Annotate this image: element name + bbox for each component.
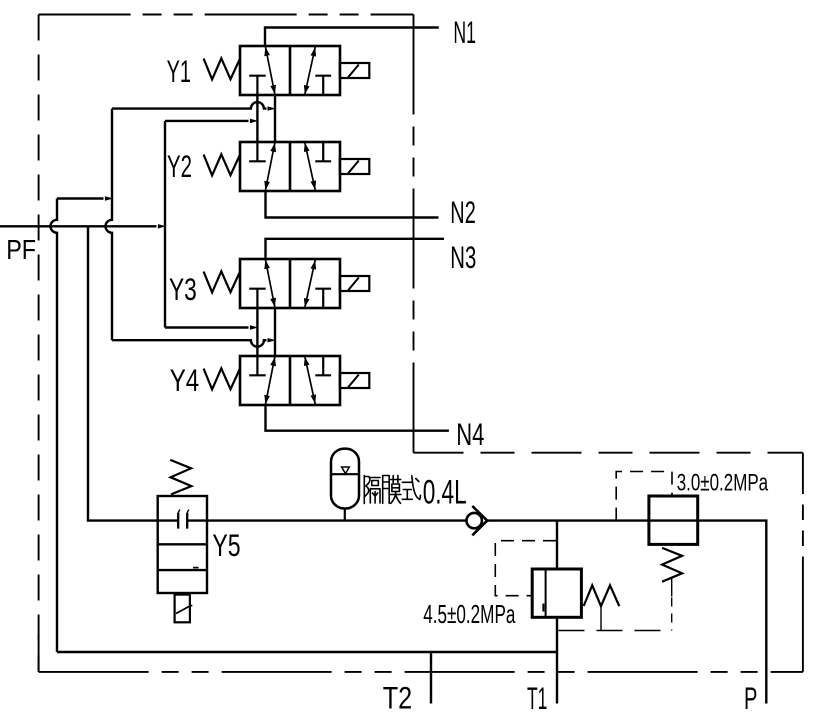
enclosure dashed border right upper edge [413,15,415,453]
svg-text:P: P [744,680,757,716]
wire stub to manifold [57,197,104,199]
svg-text:N4: N4 [456,416,484,452]
wire Y1-Y2 blocked ports [256,95,258,142]
svg-text:N1: N1 [453,14,476,50]
svg-text:3.0±0.2MPa: 3.0±0.2MPa [677,470,769,497]
valve Y2 body (mirrored) [240,142,340,191]
solenoid of Y4 [340,373,370,388]
spring of Y1 [204,58,240,79]
wire A with crossover hop to Y1/Y2 flow port [112,102,267,108]
wire vertical PF feed line [164,121,166,328]
wire B to Y1/Y2 blocked port line [165,120,249,122]
spring of Y2 [204,154,240,175]
label accumulator chinese text 膜 [383,476,401,504]
enclosure dashed border right lower edge [802,453,804,672]
accumulator [331,449,359,521]
valve Y1 body [240,46,340,95]
spring of Y3 [204,271,240,292]
wire Y3-Y4 blocked ports [256,308,258,356]
wire Y5 supply from PF [88,226,158,520]
svg-text:N2: N2 [450,194,476,230]
wire A2 with crossover hop to Y3/Y4 flow port [112,340,267,347]
svg-text:Y3: Y3 [169,271,197,307]
svg-text:Y4: Y4 [170,362,200,398]
solenoid of Y3 [340,276,370,291]
wire tank rail [57,651,557,653]
svg-text:N3: N3 [450,239,476,275]
wire main pressure line [207,521,766,704]
wire Y3-Y4 flow ports [274,308,276,356]
label accumulator chinese text 式 [402,476,420,500]
solenoid of Y5 [175,595,193,623]
valve Y5 body [158,496,207,593]
relief valve 3.0MPa [559,472,698,631]
svg-text:T2: T2 [383,680,412,716]
wire N2 from Y2 bottom port [266,191,439,218]
wire N1 from Y1 top port [265,28,439,47]
spring of Y5 [170,460,191,495]
svg-text:4.5±0.2MPa: 4.5±0.2MPa [423,599,516,629]
wire N4 from Y4 bottom port [266,405,449,431]
enclosure dashed border jog edge [414,452,803,454]
svg-text:Y5: Y5 [212,527,240,563]
wire tank return left with hop over PF [51,199,58,653]
enclosure dashed border left edge [38,15,40,672]
solenoid of Y1 [340,63,370,78]
wire N3 from Y3 top port [266,239,445,259]
wire PF port line [0,225,157,227]
wire vertical manifold line with hop over PF [106,109,112,341]
valve Y3 body [240,259,340,308]
valve Y4 body (mirrored) [240,356,340,405]
svg-text:T1: T1 [527,680,547,716]
enclosure dashed border top edge [39,14,414,16]
svg-text:Y2: Y2 [167,148,192,184]
solenoid of Y2 [340,159,370,174]
svg-text:Y1: Y1 [167,53,191,89]
check valve [467,506,488,535]
wire Y1-Y2 flow ports [274,95,276,142]
label accumulator chinese text 隔 [364,476,380,504]
wire B2 to Y3/Y4 blocked port line [165,326,249,328]
spring of Y4 [204,368,240,389]
enclosure dashed border bottom edge [39,671,803,673]
svg-text:PF: PF [6,234,36,265]
wire T2 port [430,652,432,704]
svg-text:0.4L: 0.4L [423,474,467,512]
relief valve 4.5MPa [495,521,619,704]
